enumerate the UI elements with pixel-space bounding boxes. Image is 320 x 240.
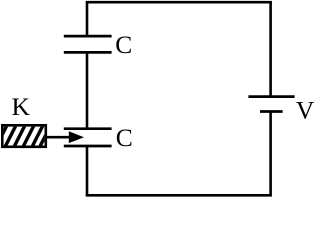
wire left lower (86, 146, 89, 195)
svg-text:C: C (116, 123, 133, 152)
wire left middle (86, 52, 89, 128)
wire bottom (86, 194, 272, 197)
dielectric slab K (0, 124, 52, 149)
capacitor C (bottom) (64, 129, 112, 146)
svg-text:C: C (115, 30, 132, 59)
wire left upper (86, 2, 89, 36)
svg-text:V: V (296, 95, 314, 124)
arrow (slab insertion) (46, 131, 85, 143)
svg-text:K: K (12, 92, 31, 121)
battery V (248, 97, 294, 112)
capacitor C (top) (64, 36, 112, 52)
wire top (86, 1, 272, 4)
wire right upper (269, 2, 272, 96)
wire right lower (269, 112, 272, 196)
